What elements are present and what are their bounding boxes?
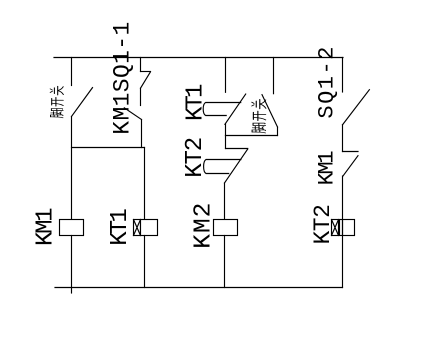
wire branch3 left below KT1	[225, 124, 227, 136]
wire branch3 bottom	[224, 236, 226, 288]
svg-text:KM1: KM1	[314, 150, 339, 185]
wire branch3 merged drop	[225, 136, 227, 149]
svg-text:KT1: KT1	[182, 84, 209, 122]
contact KT2 delayed NC stub	[226, 148, 248, 150]
wire branch1 middle	[71, 117, 73, 220]
label 脚开关 (branch 3)	[252, 99, 266, 133]
wire branch4 top drop	[342, 58, 344, 93]
wire branch3 right drop	[273, 58, 275, 94]
label 脚开关 (branch 1)	[50, 86, 63, 118]
svg-text:KM1SQ1-1: KM1SQ1-1	[110, 22, 136, 135]
contact KM1 NC blade (branch 4)	[343, 156, 358, 176]
wire branch3 right below foot switch	[277, 127, 279, 136]
contact KM1 NC stub (branch 2)	[141, 71, 151, 73]
wire branch4 through coil	[342, 176, 344, 288]
coil KM2	[214, 220, 238, 236]
contact KT1 delayed NO blade	[225, 94, 246, 124]
contact SQ1-2 blade	[343, 90, 370, 125]
wire branch4 mid1	[342, 125, 344, 152]
wire bottom bus	[55, 287, 343, 289]
wire branch2 mid	[140, 88, 142, 105]
wire branch3 to coil	[224, 183, 226, 220]
contact KT2 delayed NC blade	[225, 149, 248, 183]
contact KT1 delay cup	[203, 103, 241, 116]
svg-text:KT2: KT2	[182, 137, 209, 178]
wire branch4 through coil segment	[342, 220, 344, 236]
contact SQ1-1 blade	[124, 108, 141, 120]
contact KM1 NC blade (branch 2)	[141, 72, 151, 88]
svg-text:KT2: KT2	[310, 204, 336, 245]
svg-text:KT1: KT1	[107, 208, 134, 246]
coil KT2 body	[340, 220, 355, 236]
svg-text:SQ1-2: SQ1-2	[315, 47, 340, 119]
coil KM1	[60, 220, 84, 236]
wire branch2 top drop	[140, 58, 142, 72]
wire branch1 top drop	[71, 58, 73, 86]
wire junction branch1-branch2	[72, 147, 145, 149]
coil KT1 delay box	[134, 220, 141, 236]
switch 脚开关 blade (foot switch, branch 3)	[262, 95, 278, 127]
contact KT2 delay cup	[204, 160, 241, 174]
wire branch2 bottom	[144, 236, 146, 288]
wire branch3 left drop	[225, 58, 227, 93]
svg-text:KM2: KM2	[190, 203, 217, 249]
wire branch2 below SQ1-1	[141, 120, 143, 148]
switch 脚开关 blade (foot switch, branch 1)	[72, 88, 93, 117]
wire junction of branch3 sub-branches	[226, 135, 278, 137]
contact KM1 NC stub (branch 4)	[343, 151, 359, 153]
wire branch2 to coil	[144, 148, 146, 220]
coil KT1 body	[141, 220, 158, 236]
coil KT2 delay box	[332, 220, 339, 236]
wire top bus	[54, 57, 343, 59]
svg-text:KM1: KM1	[33, 207, 60, 246]
wire branch1 bottom	[71, 236, 73, 294]
